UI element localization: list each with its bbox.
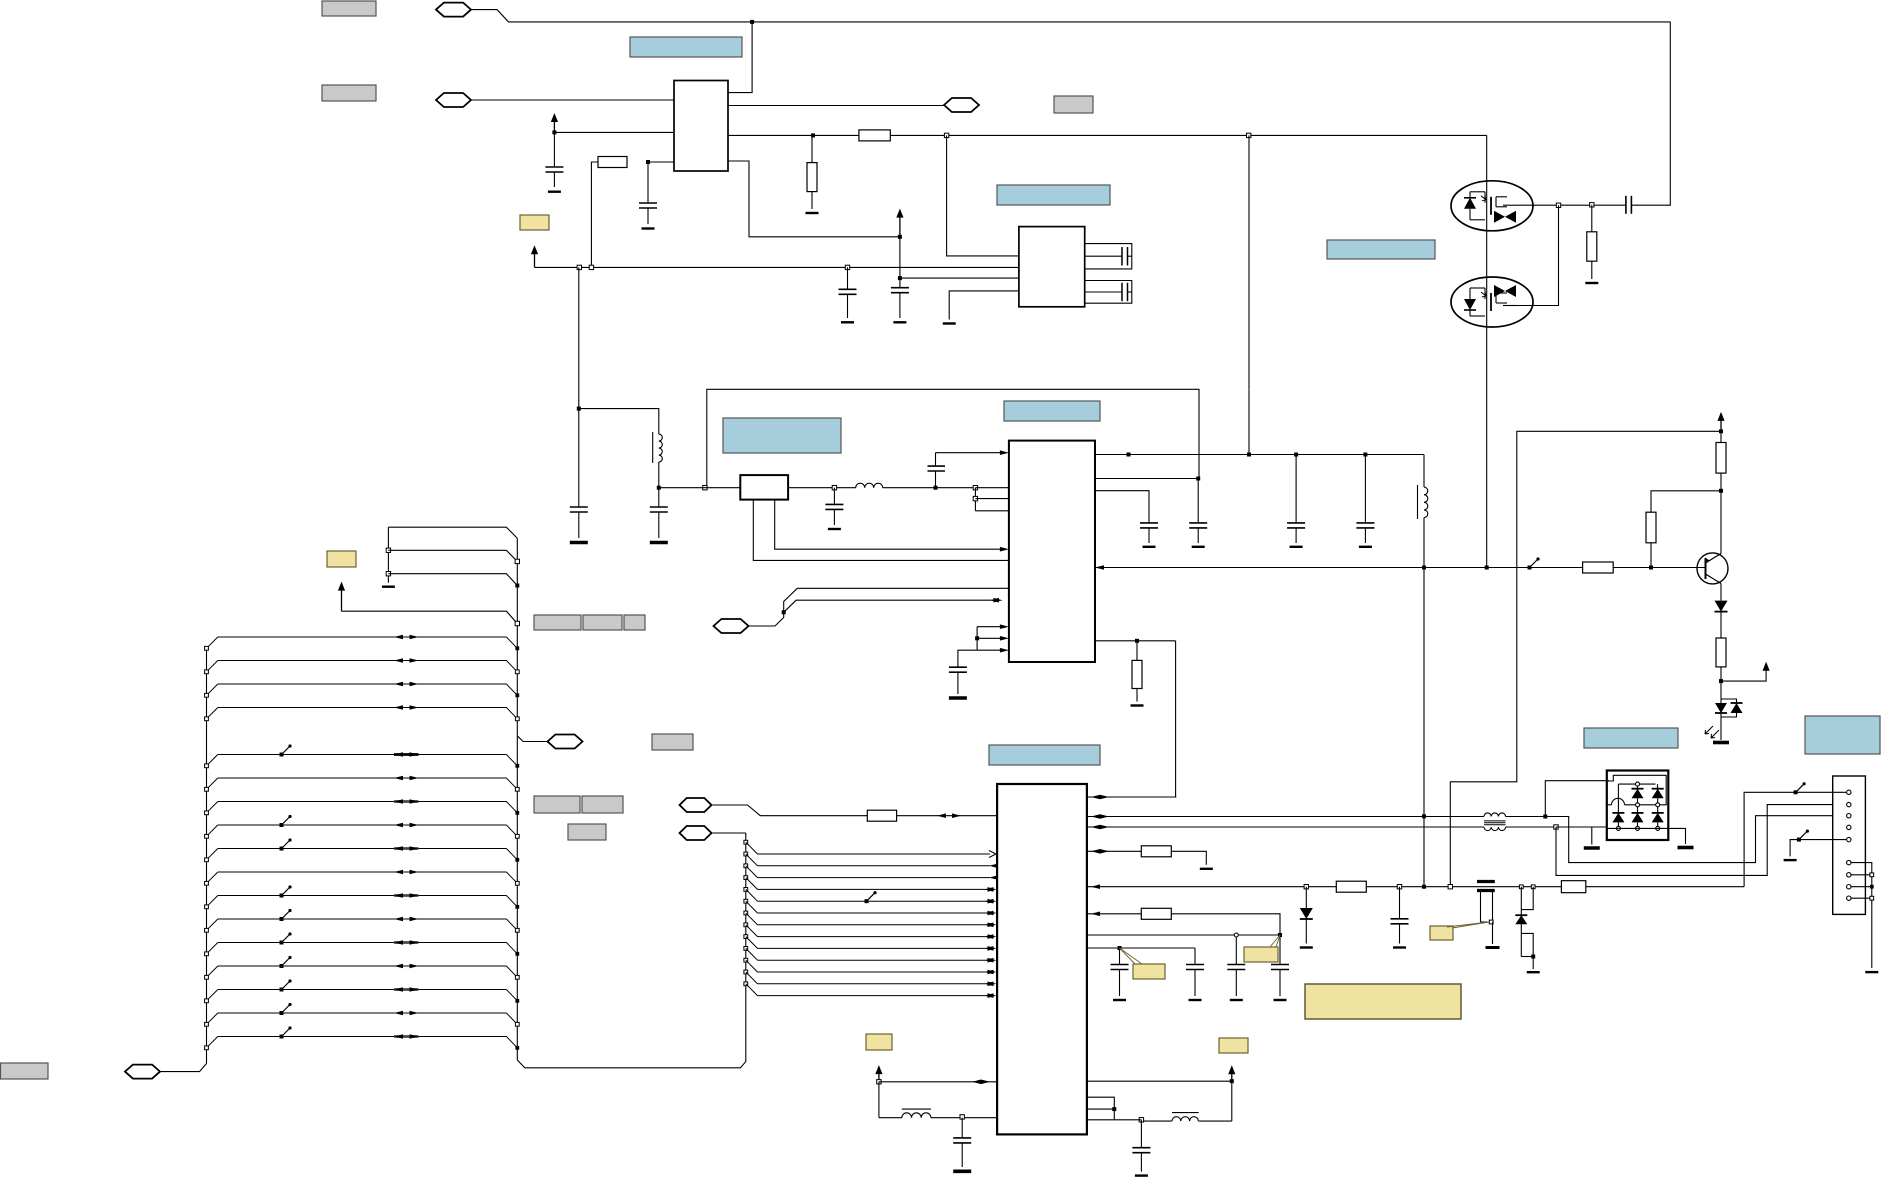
- mcu U3: [997, 784, 1087, 1134]
- capacitor C8: [570, 506, 588, 508]
- bus line: [218, 848, 507, 850]
- wire: [890, 134, 1486, 136]
- junction: [944, 133, 948, 137]
- bus line: [218, 895, 507, 897]
- wire pinC to transformer: [1087, 826, 1484, 828]
- junction: [577, 265, 581, 269]
- junction: [811, 133, 815, 137]
- junction: [898, 276, 902, 280]
- ground: [1192, 546, 1205, 548]
- ground: [1359, 546, 1372, 548]
- junction: [1304, 885, 1308, 889]
- inductor L2: [856, 483, 883, 487]
- capacitor C19: [1235, 937, 1237, 965]
- inductor L1: [652, 432, 654, 463]
- power arrow: [341, 590, 343, 612]
- capacitor C11 series: [935, 453, 937, 466]
- capacitor C24: [1140, 1120, 1142, 1148]
- yellow tag: [327, 551, 356, 567]
- ground: [1527, 971, 1540, 973]
- ground: [1290, 546, 1303, 548]
- bus line to U3: [744, 911, 748, 915]
- U3 pin G: [1087, 934, 1280, 936]
- wire: [899, 237, 901, 288]
- pin: [1847, 802, 1851, 806]
- ground: [642, 227, 655, 229]
- power arrow: [1231, 1073, 1233, 1081]
- switch tap: [282, 817, 291, 826]
- ground: [1585, 282, 1598, 284]
- pin: [1847, 885, 1851, 889]
- module TH1: [740, 475, 788, 500]
- capacitor C17: [1119, 948, 1121, 965]
- bridge diode D7: [1612, 812, 1624, 814]
- junction: [1554, 825, 1558, 829]
- pin: [1847, 790, 1851, 794]
- led D2 pair: [1715, 703, 1727, 713]
- bridge diode D8: [1632, 812, 1644, 814]
- resistor R9: [867, 810, 896, 821]
- wire: [1450, 431, 1721, 886]
- bus line: [218, 683, 507, 685]
- resistor R7: [1583, 562, 1614, 573]
- junction: [1719, 489, 1723, 493]
- ground: [1486, 946, 1500, 949]
- capacitor C1: [553, 132, 555, 167]
- bus line: [218, 754, 507, 756]
- note box: [997, 185, 1110, 205]
- note box: [1584, 728, 1678, 748]
- net flag VOUT: [944, 98, 979, 112]
- bus line: [218, 942, 507, 944]
- note box: [1805, 716, 1880, 754]
- bus line to U3: [744, 899, 748, 903]
- ground: [1131, 704, 1144, 706]
- bus line: [218, 965, 507, 967]
- junction: [934, 486, 938, 490]
- wire: [1503, 305, 1517, 307]
- U3 right vcc: [1087, 1080, 1232, 1082]
- resistor R4: [1591, 205, 1593, 232]
- bus line: [218, 918, 507, 920]
- note box: [1004, 401, 1100, 421]
- wire pinB to transformer: [1087, 816, 1484, 818]
- wire top net down right side: [1631, 22, 1670, 205]
- U2 bottom right pin: [1095, 640, 1176, 642]
- inductor L3: [1423, 455, 1425, 488]
- ground: [1135, 1174, 1148, 1176]
- bus line: [218, 801, 507, 803]
- net flag bus left: [125, 1065, 160, 1079]
- transistor Q3: [1697, 553, 1728, 584]
- wire Q1 source node: [1517, 204, 1592, 206]
- pin: [1847, 814, 1851, 818]
- bus line to U3: [744, 970, 748, 974]
- resistor R12: [1141, 908, 1171, 919]
- wire: [591, 162, 598, 267]
- switch tap: [282, 934, 291, 943]
- net label box: [322, 85, 376, 101]
- junction: [1422, 566, 1426, 570]
- resistor R6: [1646, 512, 1656, 543]
- junction: [960, 1115, 964, 1119]
- label boxes: [534, 796, 580, 813]
- junction: [782, 610, 786, 614]
- junction: [589, 265, 593, 269]
- U2 pin y478: [1095, 478, 1198, 480]
- note box: [1327, 240, 1435, 259]
- wire: [900, 277, 1019, 279]
- bridge inner outline: [1607, 775, 1666, 805]
- resistor R3: [859, 130, 890, 141]
- capacitor C4: [891, 287, 909, 289]
- wire pin5 switch: [1799, 839, 1846, 841]
- capacitor C12: [1140, 522, 1158, 524]
- bus line to U3: [744, 982, 748, 986]
- wire: [517, 736, 548, 742]
- wire: [471, 99, 674, 101]
- junction: [832, 486, 836, 490]
- connector J1: [1833, 776, 1866, 914]
- zener D4: [1515, 914, 1527, 916]
- junction: [1590, 203, 1594, 207]
- switch S3: [1799, 831, 1808, 840]
- U3 pin F: [1087, 913, 1141, 915]
- bridge diode D9: [1652, 812, 1664, 814]
- capacitor C13: [1197, 479, 1199, 523]
- ground: [1300, 946, 1313, 948]
- bridge bottom rail: [1607, 827, 1669, 829]
- pins right chain: [1851, 863, 1872, 968]
- junction: [750, 20, 754, 24]
- wire: [958, 650, 977, 667]
- pin: [1847, 837, 1851, 841]
- bridge diode D5: [1632, 788, 1644, 790]
- bus line to U3: [744, 935, 748, 939]
- bus line: [218, 636, 507, 638]
- junction: [1422, 814, 1426, 818]
- bus line: [218, 1012, 507, 1014]
- wire: [1545, 781, 1609, 817]
- note box: [989, 745, 1100, 765]
- wire: [878, 1082, 880, 1118]
- wire to Q2 source: [1517, 205, 1558, 305]
- wire: [1556, 805, 1846, 876]
- rail y887: [1087, 886, 1744, 888]
- net label box: [322, 1, 376, 16]
- switch tap: [282, 1028, 291, 1037]
- ground: [548, 190, 561, 192]
- bus line to U3: [744, 840, 748, 844]
- switch tap: [282, 1005, 291, 1014]
- wire: [947, 135, 1019, 256]
- wire bus bottom right: [517, 833, 746, 1068]
- junction: [1543, 815, 1547, 819]
- resistor R1: [648, 161, 674, 163]
- inductor L5: [1199, 1120, 1232, 1122]
- switch tap: [282, 746, 291, 755]
- ground: [828, 528, 841, 530]
- mosfet Q1: [1451, 181, 1533, 231]
- switch tap: [282, 911, 291, 920]
- pin loop: [1085, 244, 1132, 269]
- wire: [161, 1064, 207, 1072]
- diode D1: [1720, 584, 1722, 601]
- net flag: [548, 735, 583, 749]
- junction: [657, 486, 661, 490]
- capacitor C14: [1295, 455, 1297, 523]
- bus line: [218, 1036, 507, 1038]
- junction: [877, 1080, 881, 1084]
- wire: [1171, 914, 1280, 935]
- U2 right rail y455: [1095, 454, 1424, 456]
- wire: [1248, 389, 1250, 454]
- junction: [1556, 203, 1560, 207]
- resistor R11: [1336, 881, 1366, 892]
- U2 pin y490 cap: [1095, 491, 1149, 523]
- wire to U3: [1175, 641, 1177, 797]
- wire: [788, 487, 856, 489]
- wire: [712, 805, 868, 816]
- wire: [784, 600, 1000, 612]
- junction: [552, 130, 556, 134]
- left bus vertical: [206, 649, 208, 1064]
- wire: [1231, 1081, 1233, 1121]
- wire loop: [1520, 924, 1522, 956]
- callout tag: [1133, 964, 1165, 979]
- power arrow: [553, 121, 555, 132]
- converter U7: [1019, 227, 1085, 307]
- junction: [1397, 885, 1401, 889]
- label box: [568, 824, 606, 840]
- resistor R5: [1720, 431, 1722, 442]
- wire: [1721, 670, 1766, 681]
- bus entry: [749, 588, 1009, 626]
- ground stub: [1591, 827, 1593, 845]
- switch tap: [282, 958, 291, 967]
- bus line: [218, 871, 507, 873]
- U3 right pin A: [1087, 796, 1176, 798]
- ground: [570, 541, 588, 545]
- wire: [1556, 826, 1607, 828]
- ground: [949, 696, 967, 700]
- capacitor C2: [647, 162, 649, 203]
- wire: [1545, 816, 1846, 863]
- bus line: [218, 777, 507, 779]
- label boxes: [534, 615, 581, 630]
- capacitor C5: [1085, 255, 1122, 257]
- junction: [646, 160, 650, 164]
- U2 pin stack: [973, 486, 977, 490]
- power arrow: [1765, 669, 1767, 671]
- rail y135: [728, 134, 859, 136]
- wire: [936, 452, 1003, 454]
- switch tap: [867, 893, 876, 902]
- pin: [1847, 896, 1851, 900]
- junction: [1719, 679, 1723, 683]
- switch S2: [1796, 784, 1805, 793]
- junction: [1139, 1118, 1143, 1122]
- bus line: [218, 989, 507, 991]
- ground: [1784, 859, 1797, 861]
- pin loop: [1085, 281, 1132, 304]
- junction: [845, 265, 849, 269]
- switch tap: [1530, 559, 1539, 568]
- ground: [953, 1170, 971, 1174]
- ground: [1713, 741, 1729, 745]
- wire: [342, 611, 518, 623]
- junction: [577, 407, 581, 411]
- module pins: [753, 500, 1009, 561]
- wire: [879, 1081, 997, 1083]
- converter U2: [1009, 441, 1095, 662]
- capacitor C3: [847, 267, 849, 289]
- power arrow: [878, 1073, 880, 1082]
- junction: [1448, 885, 1452, 889]
- switch tap: [282, 981, 291, 990]
- capacitor C9: [658, 488, 660, 507]
- junction: [1118, 946, 1122, 950]
- ground: [1143, 546, 1156, 548]
- bridge BR1 outer: [1607, 771, 1669, 841]
- wire data bus vertical: [712, 832, 746, 834]
- net flag addr: [680, 798, 712, 812]
- wire U1 pin to VCC arrow: [728, 161, 900, 237]
- electrolytic C22: [1477, 880, 1495, 883]
- bus line to U3: [744, 947, 748, 951]
- U2 lower pins: [977, 626, 1002, 628]
- wire: [579, 409, 659, 435]
- power arrow: [899, 217, 901, 237]
- junction: [898, 235, 902, 239]
- wire: [949, 291, 1019, 320]
- rail y267: [535, 266, 1019, 268]
- junction: [1719, 429, 1723, 433]
- wire: [1506, 826, 1557, 828]
- wire: [1171, 851, 1206, 865]
- net flag PWR_IN: [436, 3, 471, 17]
- ground: [1678, 846, 1694, 850]
- label box: [652, 734, 693, 750]
- capacitor C10: [833, 488, 835, 505]
- wire pin1: [1744, 792, 1796, 886]
- switch tap: [282, 840, 291, 849]
- note box: [723, 418, 841, 453]
- node circles: [1636, 782, 1640, 786]
- bus line to U3: [744, 958, 748, 962]
- capacitor C16: [949, 666, 967, 668]
- wire drain chain: [1486, 135, 1488, 567]
- capacitor C18: [1194, 948, 1196, 965]
- label box: [1, 1063, 49, 1079]
- ground: [943, 322, 956, 324]
- ground: [893, 321, 906, 323]
- bus line to U3: [744, 923, 748, 927]
- yellow tag: [520, 215, 549, 230]
- bus line: [218, 660, 507, 662]
- yellow tag: [866, 1034, 892, 1050]
- ground: [1200, 868, 1213, 870]
- transformer T1: [1484, 813, 1506, 817]
- right bus vertical: [516, 538, 518, 1060]
- capacitor C6: [1085, 291, 1122, 293]
- note box: [630, 37, 742, 57]
- bus line to U3: [744, 888, 748, 892]
- bus line: [218, 824, 507, 826]
- pin: [1847, 825, 1851, 829]
- pin: [1847, 873, 1851, 877]
- rail y487: [659, 487, 741, 489]
- bus line to U3: [744, 876, 748, 880]
- junction: [1234, 933, 1238, 937]
- power arrow: [1720, 420, 1722, 431]
- wire: [1506, 816, 1546, 818]
- top loop rail: [707, 389, 1199, 487]
- bus line to U3: [744, 852, 748, 856]
- net flag CTRL: [714, 619, 749, 633]
- ground: [806, 212, 819, 214]
- wire: [728, 22, 752, 93]
- bridge diode D6: [1652, 788, 1664, 790]
- U3 pin H: [1087, 947, 1195, 949]
- rail y567: [1095, 567, 1705, 569]
- wire 3 pins: [1087, 1097, 1114, 1120]
- capacitor C15: [1364, 455, 1366, 523]
- power arrow: [534, 253, 536, 267]
- resistor R8: [1720, 612, 1722, 638]
- capacitor C23: [961, 1118, 963, 1138]
- callout tag: [1244, 947, 1278, 962]
- pin: [1847, 860, 1851, 864]
- capacitor C21: [1399, 887, 1401, 919]
- junction: [1247, 133, 1251, 137]
- callout tag: [1430, 926, 1453, 940]
- mosfet Q2: [1451, 277, 1533, 327]
- wire: [728, 105, 945, 107]
- bus line to U3: [744, 864, 748, 868]
- bus line: [218, 707, 507, 709]
- resistor R2: [811, 135, 813, 162]
- wire VCC rail to U1: [554, 131, 674, 133]
- U3 pin D: [1087, 850, 1141, 852]
- regulator U1: [674, 81, 728, 172]
- wire: [578, 267, 580, 507]
- diode D3: [1305, 887, 1307, 908]
- capacitor C20: [1279, 935, 1281, 965]
- junction: [1230, 1079, 1234, 1083]
- switch tap: [282, 887, 291, 896]
- bus stub top: [387, 527, 389, 583]
- label box: [1054, 96, 1093, 113]
- note big yellow: [1305, 984, 1461, 1019]
- junction: [703, 486, 707, 490]
- inductor L4: [879, 1117, 902, 1119]
- bridge wiring: [1618, 783, 1655, 785]
- capacitor C7: [1625, 196, 1627, 214]
- net flag data: [680, 826, 712, 840]
- wire: [471, 10, 1670, 22]
- resistor R10: [1141, 846, 1171, 857]
- wire: [1651, 491, 1721, 512]
- hop arc: [1612, 798, 1625, 805]
- resistor R14: [1561, 881, 1585, 893]
- ground: [841, 321, 854, 323]
- wire: [897, 815, 998, 817]
- resistor R13: [1136, 641, 1138, 661]
- zener D4 branch: [1519, 885, 1523, 889]
- wire: [1503, 204, 1517, 206]
- ground: [650, 541, 668, 545]
